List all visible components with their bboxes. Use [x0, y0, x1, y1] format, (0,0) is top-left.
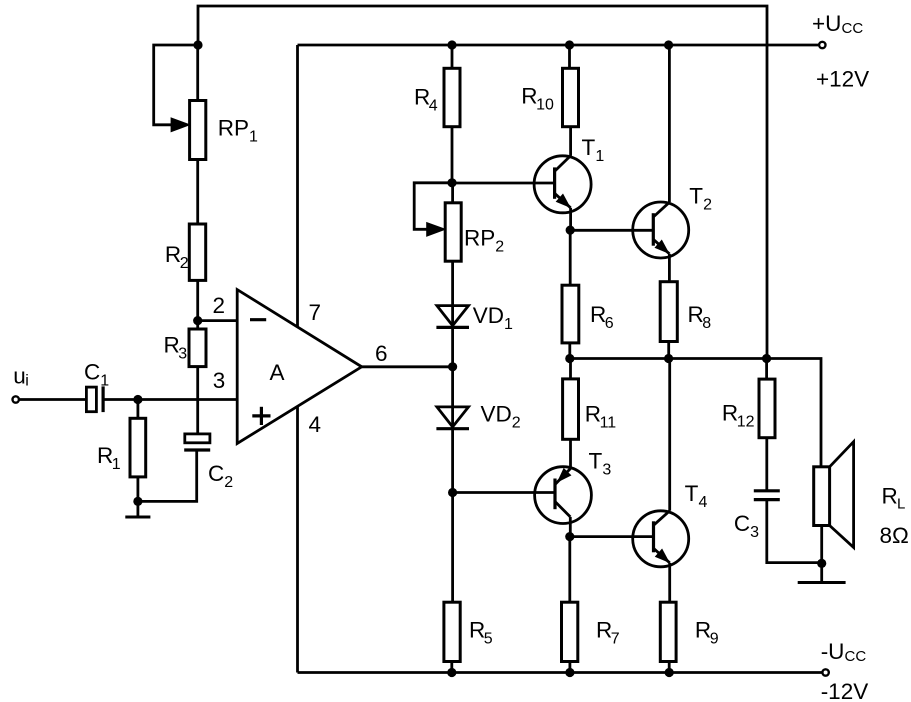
- svg-text:VD: VD: [473, 303, 504, 328]
- svg-text:2: 2: [495, 239, 504, 256]
- svg-text:T: T: [582, 135, 596, 160]
- svg-text:R: R: [882, 484, 898, 509]
- svg-text:8Ω: 8Ω: [880, 523, 909, 548]
- svg-text:3: 3: [178, 346, 187, 363]
- svg-text:2: 2: [703, 196, 712, 213]
- svg-text:11: 11: [600, 415, 617, 432]
- svg-text:u: u: [13, 364, 26, 389]
- svg-text:CC: CC: [845, 648, 867, 665]
- svg-text:3: 3: [750, 524, 759, 541]
- svg-text:RP: RP: [218, 116, 249, 141]
- svg-text:L: L: [897, 496, 905, 513]
- svg-text:1: 1: [595, 148, 604, 165]
- svg-text:T: T: [689, 183, 703, 208]
- svg-text:9: 9: [710, 630, 719, 647]
- svg-text:1: 1: [504, 316, 513, 333]
- svg-text:1: 1: [249, 129, 258, 146]
- svg-text:4: 4: [309, 412, 322, 437]
- svg-text:4: 4: [699, 494, 708, 511]
- svg-text:2: 2: [213, 293, 226, 318]
- svg-text:T: T: [589, 449, 603, 474]
- svg-text:+U: +U: [812, 11, 841, 36]
- svg-text:10: 10: [536, 97, 554, 114]
- svg-text:2: 2: [180, 255, 189, 272]
- svg-text:T: T: [685, 481, 699, 506]
- svg-text:5: 5: [484, 630, 493, 647]
- svg-text:+12V: +12V: [816, 66, 869, 91]
- svg-text:3: 3: [602, 462, 611, 479]
- svg-text:i: i: [25, 373, 29, 390]
- svg-text:-12V: -12V: [821, 679, 869, 702]
- svg-text:4: 4: [429, 98, 438, 115]
- svg-text:7: 7: [611, 630, 620, 647]
- svg-text:C: C: [734, 511, 750, 536]
- svg-text:2: 2: [224, 474, 233, 491]
- svg-text:12: 12: [737, 414, 755, 431]
- svg-text:VD: VD: [481, 402, 512, 427]
- svg-text:6: 6: [375, 341, 388, 366]
- svg-text:8: 8: [702, 315, 711, 332]
- svg-text:3: 3: [213, 368, 226, 393]
- svg-text:-U: -U: [821, 639, 845, 664]
- svg-text:7: 7: [309, 300, 322, 325]
- svg-text:C: C: [208, 461, 224, 486]
- svg-text:C: C: [84, 360, 100, 385]
- svg-text:2: 2: [512, 415, 521, 432]
- svg-text:RP: RP: [464, 226, 495, 251]
- svg-text:6: 6: [605, 315, 614, 332]
- svg-text:A: A: [270, 360, 285, 385]
- svg-text:CC: CC: [842, 20, 864, 37]
- svg-text:1: 1: [112, 456, 121, 473]
- svg-text:1: 1: [100, 373, 109, 390]
